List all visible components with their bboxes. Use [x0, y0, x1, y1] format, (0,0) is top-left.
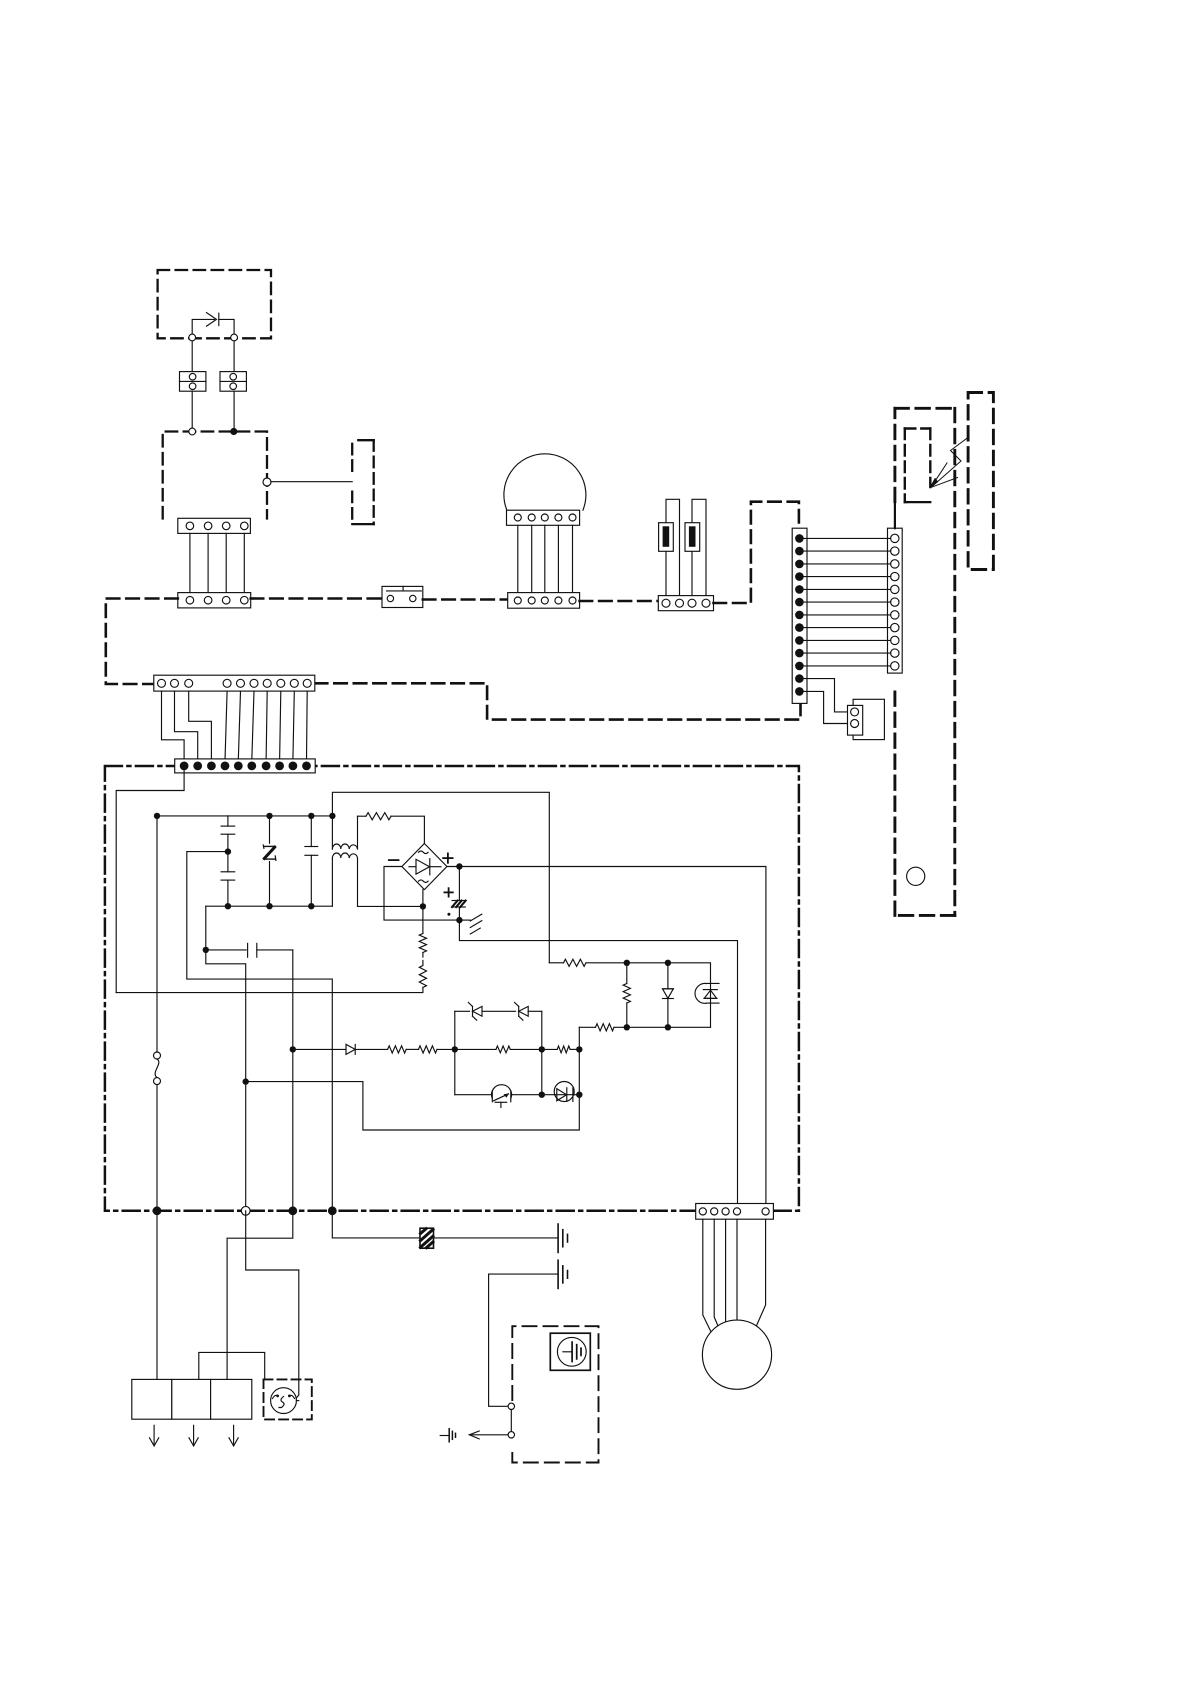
fuse loop 2 wire: [692, 499, 706, 595]
wire: [238, 691, 240, 760]
fuse F2: [685, 523, 700, 552]
wire: [191, 341, 193, 372]
subcircuit right edge wire: [541, 1011, 543, 1094]
connector CN-2 (2-pin): [848, 705, 863, 735]
wire: [406, 1048, 418, 1050]
junction dot: [266, 813, 272, 819]
choke coil L1: [332, 816, 357, 907]
junction dot: [328, 1206, 337, 1215]
fuse F1: [659, 523, 674, 552]
capacitor C1: [221, 816, 235, 849]
wire (feed loop): [332, 792, 549, 963]
junction dot: [539, 1092, 545, 1098]
wire: [578, 1049, 580, 1094]
wire: [804, 652, 891, 654]
subcircuit middle rail: [455, 1048, 542, 1050]
wire: [489, 1274, 558, 1406]
appliance box 2: [172, 1379, 211, 1419]
resistor R-chain-2: [419, 966, 426, 988]
capacitor C3: [305, 816, 318, 906]
wire: [358, 905, 423, 907]
wire (chain bottom to left): [116, 988, 423, 993]
wire (battery minus rail to pin4): [459, 920, 737, 1203]
junction dot: [665, 1024, 671, 1030]
pointer arrow with flash: [929, 438, 968, 489]
battery: [452, 867, 466, 921]
dashed enclosure box (top-left unit): [158, 270, 271, 338]
junction dot: [288, 1206, 297, 1215]
zener diode ZD1: [468, 1002, 482, 1020]
wire: [804, 537, 891, 539]
dashed unit box (tall right): [895, 408, 955, 915]
wire (to subcircuit bottom): [246, 1082, 580, 1130]
wire: [572, 525, 574, 592]
wire jog 1: [162, 691, 185, 760]
wire: [306, 691, 309, 760]
junction dot: [576, 1092, 582, 1098]
wire: [544, 525, 546, 592]
wire: [437, 1048, 455, 1050]
fuse loop 1 wire: [666, 499, 680, 595]
earth switch dashed box: [512, 1326, 598, 1462]
junction dot: [308, 903, 314, 909]
wire: [531, 525, 533, 592]
wire: [271, 481, 352, 483]
wire: [243, 533, 245, 592]
zener diode ZD3 (vertical): [663, 963, 674, 1028]
varistor Z: [263, 816, 276, 906]
wire trio bottom rail: [579, 1026, 710, 1028]
junction dot: [308, 813, 314, 819]
resistor R2: [564, 959, 587, 966]
resistor R4: [596, 1024, 615, 1031]
dashed unit box (far right): [968, 393, 993, 570]
junction dot: [266, 903, 272, 909]
harness dashed wire: [251, 597, 382, 600]
junction dot: [576, 1046, 582, 1052]
junction dot: [153, 1206, 162, 1215]
wire: [517, 525, 519, 592]
wire motor lead 1: [703, 1219, 711, 1332]
transistor/protector Q1: [492, 1085, 512, 1108]
wire: [189, 533, 191, 592]
wire: [804, 665, 891, 667]
wire: [434, 1237, 558, 1239]
wire: [804, 576, 891, 578]
connector CN-11 (11-pin): [888, 528, 903, 673]
indicator lamp/thyristor: [695, 983, 719, 1027]
node open: [241, 1206, 250, 1215]
fuse holder block right: [220, 372, 246, 392]
relay unit dashed box: [163, 432, 267, 519]
node: valve right terminal: [231, 334, 238, 341]
terminal strip (board upper 10-pin): [154, 675, 315, 691]
label plus: [443, 853, 452, 862]
zener diode ZD2: [515, 1002, 529, 1020]
chassis ground: [459, 914, 481, 934]
junction dot: [420, 903, 426, 909]
node: earth switch contact 2: [508, 1432, 514, 1438]
wire (pin1 feed): [116, 766, 184, 993]
wire: [804, 588, 891, 590]
resistor R7: [496, 1046, 510, 1053]
wire motor lead 4: [736, 1219, 738, 1320]
appliance box 3: [211, 1379, 252, 1419]
label minus: [389, 859, 399, 861]
dome lamp component: [504, 454, 586, 510]
wire: [804, 627, 891, 629]
wire motor lead 2: [714, 1219, 719, 1329]
wire: [156, 1085, 158, 1211]
label plus: [444, 888, 452, 896]
junction dot: [539, 1046, 545, 1052]
junction dot: [290, 1046, 296, 1052]
node: earth switch contact 1: [508, 1403, 514, 1409]
terminal strip (relay upper 4-pin): [178, 518, 251, 533]
wire: [296, 1400, 298, 1402]
arrow (load): [189, 1425, 198, 1446]
fuse holder block left: [180, 372, 206, 392]
wire: [225, 533, 227, 592]
resistor R8: [542, 1046, 580, 1053]
wire pin12: [804, 679, 851, 712]
wire: [293, 691, 294, 760]
wire: [358, 815, 367, 817]
wire: [225, 691, 227, 760]
circled diode D2: [554, 1082, 574, 1102]
wire: [205, 906, 207, 950]
wire: [804, 601, 891, 603]
wire: [233, 341, 235, 372]
terminal strip (dome lower 5-pin): [508, 593, 580, 609]
wire: [586, 963, 711, 984]
wire: [207, 533, 209, 592]
chassis ground G2: [558, 1260, 567, 1288]
subcircuit top rail wire: [455, 1010, 542, 1012]
wire top rail: [157, 815, 332, 817]
wire jog 2: [175, 691, 198, 760]
subcircuit left edge wire: [454, 1011, 456, 1094]
resistor R-top: [366, 813, 391, 820]
indicator circle: [907, 867, 925, 885]
wire (dashed box to CN-11): [894, 502, 896, 529]
wire: [233, 391, 235, 428]
wire motor lead 5: [756, 1219, 766, 1327]
wire motor lead 3: [725, 1219, 727, 1322]
wire: [206, 950, 246, 1211]
junction dot: [154, 813, 160, 819]
wire: [804, 639, 891, 641]
pressure switch: [382, 586, 423, 607]
wire: [266, 691, 267, 760]
junction dot: [456, 863, 462, 869]
dashed bracket component: [352, 440, 374, 524]
junction dot: [329, 813, 335, 819]
wire (thermostat feed): [246, 1211, 299, 1398]
wire: [391, 816, 424, 843]
wire: [252, 691, 254, 760]
control board dash-dot boundary: [105, 766, 799, 1211]
junction dot: [225, 903, 231, 909]
wire (+ rail to pin5): [447, 867, 766, 1204]
junction dot: [452, 1046, 458, 1052]
dashed link: [422, 953, 424, 966]
resistor R5: [388, 1046, 407, 1053]
arrow (to ground): [469, 1431, 508, 1439]
connector CN-13 (13-pin): [792, 528, 807, 703]
junction dot: [624, 960, 630, 966]
chassis ground G3: [440, 1429, 455, 1442]
wire secondary rail: [549, 962, 563, 964]
wire: [156, 1211, 158, 1380]
junction dot: [665, 960, 671, 966]
wire: [280, 691, 281, 760]
arrow (load): [229, 1425, 238, 1446]
wire bottom rail: [206, 905, 332, 907]
wire pin13: [804, 691, 851, 723]
wire: [557, 525, 559, 592]
junction dot: [243, 1078, 249, 1084]
wire (bridge minus): [384, 867, 459, 921]
resistor R3 (vertical): [623, 963, 630, 1028]
terminal strip (fuse 4-pin): [658, 596, 713, 611]
wire (box3 feed): [227, 1211, 293, 1380]
connector CN-5 (5-pin motor): [696, 1204, 774, 1220]
harness dashed wire: [423, 598, 508, 601]
harness dashed wire (to 13-pin connector top): [714, 502, 799, 603]
wire: [578, 1027, 580, 1049]
wire (fusible link feed): [332, 1211, 419, 1238]
wire: [156, 816, 158, 1052]
junction dot: [230, 428, 237, 435]
resistor R-chain-1: [419, 934, 426, 953]
wire: [422, 890, 424, 934]
wire: [804, 614, 891, 616]
junction dot: [456, 917, 462, 923]
junction dot: [203, 947, 209, 953]
harness dashed wire (lower run to 13-pin connector bottom): [315, 683, 801, 719]
wire: [804, 550, 891, 552]
terminal strip (board lower 10-pin): [175, 759, 316, 773]
harness dashed wire: [580, 600, 659, 603]
subcircuit bottom rail wire: [455, 1094, 580, 1096]
arrow (load): [150, 1425, 159, 1446]
junction dot: [624, 1024, 630, 1030]
wire: [804, 563, 891, 565]
earth symbol in square: [550, 1333, 590, 1370]
chassis ground G1: [558, 1224, 567, 1252]
wire: [292, 950, 294, 1211]
inner dashed box: [905, 429, 931, 503]
label dot: [447, 913, 450, 916]
capacitor C2: [221, 852, 235, 907]
node: open terminal: [189, 428, 196, 435]
circuit breaker: [154, 1052, 161, 1085]
node: relay output circle: [263, 478, 271, 486]
appliance box 1: [132, 1379, 172, 1419]
motor M: [702, 1320, 771, 1389]
bridge rectifier: [402, 844, 447, 890]
junction dot: [225, 848, 231, 854]
harness dashed wire (left corner down to strip): [106, 599, 178, 685]
connector CN-2 outer shell: [853, 699, 884, 739]
thermostat dashed box: [264, 1379, 312, 1419]
wire (cap midpoint branch): [187, 852, 332, 1211]
fusible link (hatched): [420, 1228, 434, 1248]
wire jog 3: [189, 691, 212, 760]
resistor R6: [419, 1046, 438, 1053]
terminal strip (relay lower 4-pin): [178, 593, 251, 608]
capacitor C4: [206, 943, 293, 957]
wire step: [199, 1352, 265, 1379]
node: valve left terminal: [189, 334, 196, 341]
wire contact link: [510, 1410, 512, 1432]
wire: [191, 391, 193, 428]
check valve symbol: [192, 313, 234, 336]
terminal strip (dome upper 5-pin): [507, 510, 580, 525]
thermostat switch: [271, 1388, 297, 1414]
diode D1: [293, 1044, 388, 1054]
